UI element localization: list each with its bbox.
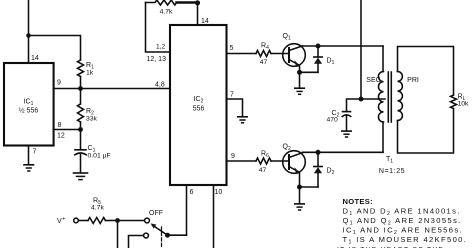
wire PRI top to RL: [398, 47, 454, 96]
svg-text:10: 10: [215, 189, 223, 196]
wire IC1 pin 14: [28, 36, 30, 64]
wire junction down: [117, 221, 119, 248]
svg-text:47: 47: [259, 167, 267, 174]
diode D2: [317, 152, 319, 166]
svg-text:OFF: OFF: [149, 210, 163, 217]
svg-text:33k: 33k: [86, 116, 98, 123]
capacitor C2 470: [343, 111, 351, 113]
node Q2 emitter junction: [297, 185, 302, 190]
wire rail to R1: [29, 36, 81, 61]
wire SEC top: [382, 46, 384, 72]
wire R2 bottom: [80, 122, 82, 130]
wire SEC bottom: [382, 122, 384, 152]
wire IC2 pin 5 to R4: [227, 53, 257, 55]
svg-text:12: 12: [57, 133, 65, 140]
svg-text:PRI: PRI: [407, 77, 419, 84]
wire R6 to Q2 base: [271, 160, 289, 162]
wire Q1 emitter to ground: [299, 72, 301, 88]
svg-text:14: 14: [201, 18, 209, 25]
svg-text:N=1:25: N=1:25: [379, 168, 405, 175]
wire R3 to IC2 pin 14 junction: [177, 1, 198, 3]
node junction D1 top: [316, 44, 321, 49]
wire V+ to R5: [78, 220, 88, 222]
node junction center tap: [359, 97, 364, 102]
wire center tap to C2: [347, 99, 362, 112]
svg-text:6: 6: [190, 189, 194, 196]
ground C2: [342, 130, 351, 132]
node junction pin9 row: [78, 86, 83, 91]
IC1 box: [4, 63, 54, 146]
resistor R2 33k: [78, 104, 84, 122]
IC2 box: [170, 25, 227, 185]
wire junction to OFF contact: [118, 220, 145, 222]
wire C2 bottom: [346, 116, 348, 131]
wire IC1 pin9 to IC2 pins 4,8: [54, 88, 170, 90]
svg-text:7: 7: [230, 92, 234, 99]
wire Q1 emitter to D1 anode: [300, 71, 319, 73]
svg-text:556: 556: [193, 106, 205, 113]
svg-text:14: 14: [31, 55, 39, 62]
svg-text:47: 47: [260, 59, 268, 66]
ground Q2 emitter: [295, 203, 305, 205]
svg-text:1k: 1k: [86, 70, 94, 77]
svg-text:4,8: 4,8: [155, 82, 165, 89]
svg-text:10k: 10k: [458, 101, 470, 108]
wire V+ feed to transformer center tap: [360, 0, 362, 99]
wire RL bottom / PRI bottom: [398, 109, 454, 154]
svg-text:9: 9: [231, 153, 235, 160]
ground IC2 pin 7: [238, 116, 247, 118]
wire center tap to coil: [361, 98, 385, 100]
svg-text:T1 IS A MOUSER 42KF500.: T1 IS A MOUSER 42KF500.: [343, 235, 468, 245]
node Q1 emitter junction: [297, 70, 302, 75]
svg-text:4.7k: 4.7k: [91, 205, 104, 212]
wire V+ rail left vertical: [28, 0, 30, 36]
resistor R6 47: [256, 158, 271, 164]
svg-text:12, 13: 12, 13: [147, 56, 167, 63]
wire ON contact down: [129, 236, 144, 248]
transistor Q2: [283, 151, 306, 174]
resistor R1 1k: [78, 60, 84, 77]
switch arm S1: [153, 225, 168, 235]
node junction R3 / pin 14: [195, 0, 200, 5]
svg-text:5: 5: [230, 45, 234, 52]
wire IC2 pin 7 to ground: [227, 99, 243, 117]
node junction D2 top: [316, 150, 321, 155]
notes block: [337, 197, 467, 248]
wire R5 to switch: [106, 220, 118, 222]
wire Q2 collector row: [303, 151, 384, 153]
wire Q1 collector row: [303, 45, 384, 47]
wire IC2 pin 10: [213, 185, 215, 248]
wire Q2 emitter to ground: [299, 187, 301, 204]
ground Q1 emitter: [295, 87, 305, 89]
wire IC2 pin 14: [197, 3, 199, 26]
ground C1: [74, 172, 88, 174]
wire IC2 pin 6: [186, 185, 188, 235]
node switch pivot: [165, 233, 170, 238]
svg-text:NOTES:: NOTES:: [343, 197, 374, 206]
svg-text:SEC: SEC: [366, 77, 380, 84]
ground IC1 pin 7: [24, 164, 34, 166]
resistor RL 10k: [451, 95, 457, 108]
transistor Q1: [283, 44, 306, 67]
svg-text:1,2: 1,2: [156, 44, 165, 51]
switch OFF contact: [145, 218, 150, 223]
wire C1 bottom: [80, 155, 82, 173]
resistor R3 4.7k: [146, 0, 177, 5]
wire R3 left leg down to pins 1,2,12,13: [146, 3, 171, 53]
svg-text:4.7k: 4.7k: [160, 9, 173, 16]
wire IC1 pin 7: [28, 146, 30, 165]
wire R2 top: [80, 89, 82, 105]
resistor R5 4.7k: [88, 218, 106, 224]
svg-text:0.01 µF: 0.01 µF: [88, 153, 111, 160]
capacitor C1 0.01uF: [75, 149, 86, 151]
node junction R5: [115, 218, 120, 223]
wire Q2 emitter to D2 anode: [300, 186, 319, 188]
svg-text:9: 9: [57, 80, 61, 87]
wire R4 to Q1 base: [271, 53, 289, 55]
resistor R4 47: [256, 51, 271, 57]
wire C1 top: [80, 130, 82, 150]
svg-text:470: 470: [327, 117, 339, 124]
svg-text:7: 7: [33, 149, 37, 156]
node junction pins 8,12 row: [78, 127, 83, 132]
wire switch linkage dashed: [161, 227, 163, 248]
wire IC1 pins 8,12 stub: [54, 129, 81, 131]
transformer T1 secondary winding: [378, 72, 383, 122]
terminal V+: [74, 218, 79, 223]
transformer T1 primary winding: [398, 72, 403, 121]
wire pivot to pin 6: [168, 234, 187, 236]
diode D1: [317, 46, 319, 57]
svg-text:½ 556: ½ 556: [19, 107, 39, 115]
switch ON contact: [144, 233, 149, 238]
wire R1 bottom: [80, 77, 82, 89]
svg-text:8: 8: [58, 122, 62, 129]
wire IC2 pin 9 to R6: [227, 160, 257, 162]
transformer T1 core: [387, 72, 389, 122]
node junction V+ rail left: [26, 33, 31, 38]
